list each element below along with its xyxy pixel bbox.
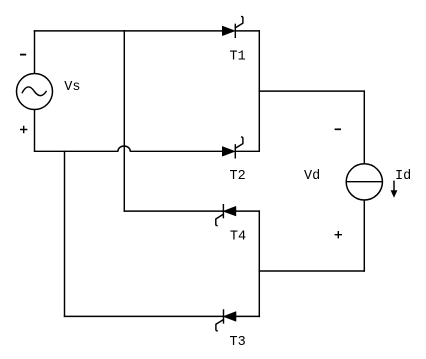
- wire row F branch to load bottom: [259, 270, 364, 272]
- wire T2 cathode to right vertical: [235, 150, 259, 152]
- wire row E branch to load top: [259, 90, 364, 92]
- svg-text:Id: Id: [395, 169, 411, 184]
- svg-text:Vd: Vd: [304, 169, 320, 184]
- wire T4 anode to right vertical: [236, 210, 260, 212]
- wire row B with hop over vertical, source bottom to T2 anode: [35, 146, 223, 151]
- wire right column top into Id source: [363, 91, 365, 163]
- plus sign at source bottom: [20, 126, 27, 133]
- wire T1 cathode to corner: [235, 30, 259, 32]
- svg-text:T2: T2: [230, 169, 246, 184]
- ac source Vs: [17, 74, 53, 110]
- thyristor T3: [216, 310, 236, 331]
- svg-text:T3: T3: [230, 335, 246, 350]
- wire left column top (source - terminal): [34, 31, 36, 74]
- wire row C from vertical to T4 cathode: [124, 210, 223, 212]
- wire T3 anode to right vertical: [236, 315, 259, 317]
- wire right-lower vertical T4 row to T3 row: [258, 211, 260, 316]
- svg-text:Vs: Vs: [64, 80, 80, 95]
- wire vertical from row A down to T4 row (crosses row B at hop): [123, 31, 125, 211]
- wire left column bottom (source + terminal): [34, 110, 36, 152]
- wire top row A from source to T1 anode: [35, 30, 223, 32]
- arrow Id direction: [391, 181, 398, 198]
- wire vertical #2 from row B down to T3 row: [64, 151, 66, 316]
- thyristor T1: [222, 17, 243, 38]
- thyristor T4: [216, 205, 236, 226]
- wire right-upper vertical T1 row to T2 row: [258, 31, 260, 151]
- thyristor T2: [222, 137, 243, 158]
- wire right column bottom from Id source: [363, 200, 365, 271]
- minus sign at source top: [20, 54, 26, 56]
- plus sign at load bottom: [335, 231, 342, 238]
- minus sign at load top: [335, 128, 341, 130]
- current source Id: [346, 164, 382, 200]
- svg-text:T4: T4: [230, 230, 246, 245]
- svg-text:T1: T1: [230, 50, 246, 65]
- wire row D from vertical to T3 cathode: [65, 315, 224, 317]
